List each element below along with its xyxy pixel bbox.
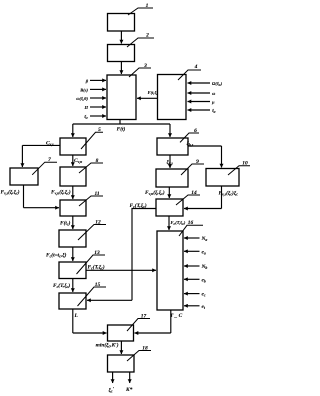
svg-text:Cv,n: Cv,n bbox=[74, 158, 82, 164]
svg-text:Fv,s(ξc)ξc: Fv,s(ξc)ξc bbox=[219, 190, 239, 197]
svg-text:15: 15 bbox=[95, 282, 101, 288]
svg-text:Ω(ξc): Ω(ξc) bbox=[212, 81, 223, 87]
svg-text:et: et bbox=[202, 304, 206, 310]
svg-text:13: 13 bbox=[94, 250, 100, 256]
svg-text:11: 11 bbox=[94, 191, 99, 197]
svg-text:ω(ξ,θ): ω(ξ,θ) bbox=[76, 96, 88, 101]
svg-text:17: 17 bbox=[141, 313, 147, 319]
svg-text:Cv,s: Cv,s bbox=[46, 140, 54, 146]
svg-text:6: 6 bbox=[194, 128, 197, 134]
svg-text:Fc(T,ξc): Fc(T,ξc) bbox=[88, 264, 105, 271]
svg-text:β: β bbox=[85, 78, 89, 83]
svg-text:μ: μ bbox=[211, 100, 215, 105]
svg-text:12: 12 bbox=[95, 219, 101, 225]
svg-text:10: 10 bbox=[242, 161, 248, 167]
svg-text:ω: ω bbox=[212, 91, 216, 96]
svg-text:16: 16 bbox=[188, 220, 194, 226]
svg-text:Fc(T,ξc): Fc(T,ξc) bbox=[130, 202, 147, 209]
svg-text:Fv,n(ξ,ξc): Fv,n(ξ,ξc) bbox=[145, 189, 165, 196]
svg-text:Fc(T,ξc): Fc(T,ξc) bbox=[53, 282, 70, 289]
svg-text:2: 2 bbox=[145, 33, 149, 39]
svg-text:F(t): F(t) bbox=[117, 126, 126, 133]
svg-text:Fv,s(ξ,ξc): Fv,s(ξ,ξc) bbox=[1, 189, 20, 196]
svg-text:L: L bbox=[74, 313, 79, 319]
svg-text:Fc(T,ξc): Fc(T,ξc) bbox=[171, 220, 186, 226]
svg-text:8: 8 bbox=[96, 158, 99, 164]
svg-text:ea: ea bbox=[202, 249, 206, 255]
svg-text:F(tc): F(tc) bbox=[60, 220, 71, 227]
svg-text:T _ C: T _ C bbox=[170, 313, 183, 319]
svg-text:5: 5 bbox=[98, 127, 101, 133]
svg-text:K*: K* bbox=[125, 386, 133, 393]
svg-text:ξc′: ξc′ bbox=[109, 387, 115, 394]
svg-text:18: 18 bbox=[142, 345, 148, 351]
svg-text:3: 3 bbox=[143, 63, 147, 69]
svg-text:Nb: Nb bbox=[201, 264, 208, 270]
svg-text:eb: eb bbox=[202, 277, 206, 283]
svg-text:Fc(t=tc,ξ): Fc(t=tc,ξ) bbox=[46, 252, 67, 259]
svg-text:9: 9 bbox=[196, 159, 199, 165]
svg-text:F(t,ξ): F(t,ξ) bbox=[148, 90, 159, 95]
svg-text:min(ξc,K′): min(ξc,K′) bbox=[96, 342, 119, 349]
svg-text:ξc: ξc bbox=[212, 108, 216, 114]
svg-text:14: 14 bbox=[191, 190, 197, 196]
svg-text:4: 4 bbox=[194, 64, 198, 70]
svg-text:ec: ec bbox=[202, 292, 206, 298]
svg-text:Fv,n(ξ,ξc): Fv,n(ξ,ξc) bbox=[51, 189, 71, 196]
svg-text:Na: Na bbox=[201, 236, 208, 242]
svg-text:7: 7 bbox=[48, 157, 51, 163]
svg-text:B(s): B(s) bbox=[79, 87, 88, 92]
svg-text:ξb,s: ξb,s bbox=[187, 140, 194, 147]
svg-text:1: 1 bbox=[146, 3, 149, 9]
svg-text:Π: Π bbox=[83, 105, 88, 110]
svg-text:ξc: ξc bbox=[84, 114, 88, 120]
